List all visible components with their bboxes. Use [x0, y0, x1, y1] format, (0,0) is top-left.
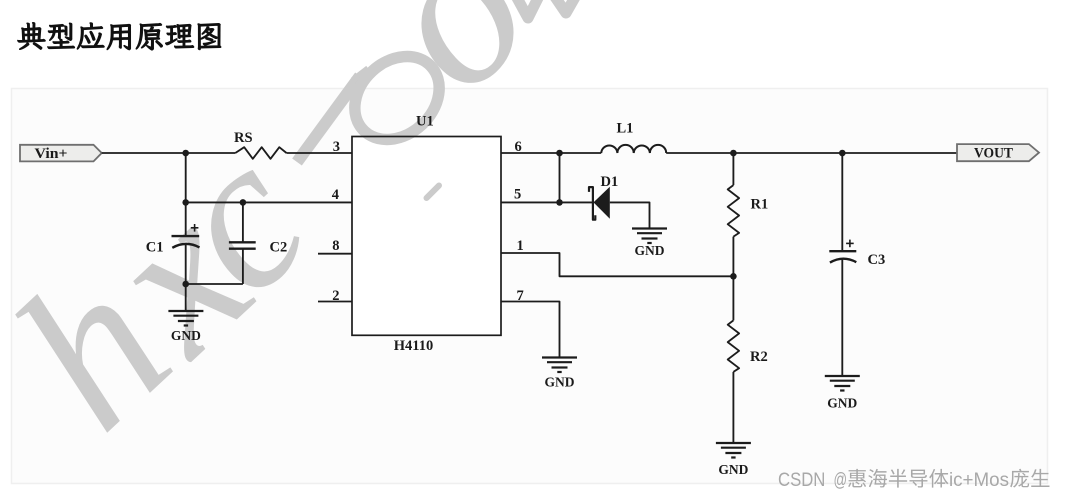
capacitor C2	[229, 241, 256, 243]
op-amp U1 box fill	[352, 137, 501, 336]
resistor R2	[728, 320, 739, 372]
node feedback	[730, 273, 737, 280]
pin 6 wire	[501, 152, 601, 154]
pin 8 stub	[318, 253, 352, 255]
svg-text:GND: GND	[635, 243, 665, 258]
node C1 top	[182, 199, 189, 206]
svg-text:5: 5	[514, 187, 521, 203]
svg-text:GND: GND	[545, 374, 575, 389]
svg-text:ic+Mos: ic+Mos	[949, 469, 1009, 491]
watermark p-stem serif	[354, 70, 369, 82]
op-amp U1 box border	[352, 137, 501, 336]
node L1 out	[730, 150, 737, 157]
svg-text:RS: RS	[234, 130, 253, 146]
wire C2 lead	[242, 202, 244, 242]
inductor L1	[601, 145, 666, 153]
svg-text:1: 1	[517, 238, 524, 254]
wire R1 to node	[732, 237, 734, 277]
svg-text:@: @	[834, 469, 848, 491]
resistor RS	[235, 147, 286, 159]
pin 1 wire	[501, 253, 733, 276]
ground D1	[632, 227, 667, 229]
svg-text:VOUT: VOUT	[974, 145, 1013, 161]
resistor R1	[728, 185, 739, 237]
wire D1 anode to gnd	[610, 202, 650, 228]
wire to R1	[732, 153, 734, 185]
schematic panel	[12, 89, 1048, 484]
svg-text:GND: GND	[718, 462, 748, 477]
svg-text:2: 2	[332, 288, 339, 304]
node C2 top	[240, 199, 247, 206]
wire C3 bottom	[841, 259, 843, 376]
wire L1 to VOUT	[666, 152, 957, 154]
wire C3 lead	[841, 153, 843, 251]
wire VIN down	[185, 153, 187, 236]
capacitor C1	[172, 235, 200, 237]
svg-text:C2: C2	[270, 240, 288, 256]
svg-text:GND: GND	[827, 396, 857, 411]
watermark w feet	[516, 0, 539, 18]
svg-text:7: 7	[517, 288, 524, 304]
svg-text:D1: D1	[601, 174, 619, 190]
port Vin+	[20, 145, 102, 162]
watermark tick in U1	[427, 186, 440, 199]
diode D1	[589, 187, 595, 220]
node pin5	[556, 199, 563, 206]
port VOUT	[957, 144, 1039, 161]
pin 5 wire	[501, 201, 593, 203]
svg-text:H4110: H4110	[394, 338, 433, 354]
node pin6	[556, 150, 563, 157]
ground C3	[825, 375, 860, 377]
svg-text:GND: GND	[171, 328, 201, 343]
ground C1	[168, 310, 203, 312]
svg-text:C3: C3	[868, 252, 886, 268]
title 典型应用原理图	[18, 23, 221, 51]
capacitor C3	[829, 250, 856, 252]
svg-text:C1: C1	[146, 240, 164, 256]
wire pin4 rail	[186, 201, 352, 203]
svg-text:CSDN: CSDN	[778, 469, 825, 491]
wire RS to pin3	[287, 152, 353, 154]
svg-text:3: 3	[333, 139, 340, 155]
svg-text:R1: R1	[751, 197, 769, 213]
wire node to R2	[732, 276, 734, 320]
pin 2 stub	[318, 301, 352, 303]
svg-text:R2: R2	[750, 349, 768, 365]
node C3 top	[839, 150, 846, 157]
watermark slash fragment	[297, 76, 360, 162]
node VIN junction	[182, 150, 189, 157]
svg-text:8: 8	[332, 238, 339, 254]
svg-text:Vin+: Vin+	[35, 146, 68, 162]
svg-text:U1: U1	[416, 114, 434, 130]
wire C1 bottom	[185, 245, 187, 311]
ground R2	[716, 442, 751, 444]
wire pin6-pin5	[559, 153, 561, 202]
svg-text:L1: L1	[617, 121, 634, 137]
wire R2 to gnd	[732, 372, 734, 443]
svg-text:4: 4	[332, 187, 339, 203]
watermark p-bowl ring	[338, 40, 456, 157]
ground pin7	[542, 356, 577, 358]
wire Vin+ to RS	[102, 152, 236, 154]
pin 7 wire	[501, 302, 560, 358]
svg-text:6: 6	[515, 139, 522, 155]
node C1C2 gnd junction	[182, 281, 189, 288]
wire C2 bottom	[242, 249, 244, 284]
csdn footer	[778, 469, 1049, 491]
